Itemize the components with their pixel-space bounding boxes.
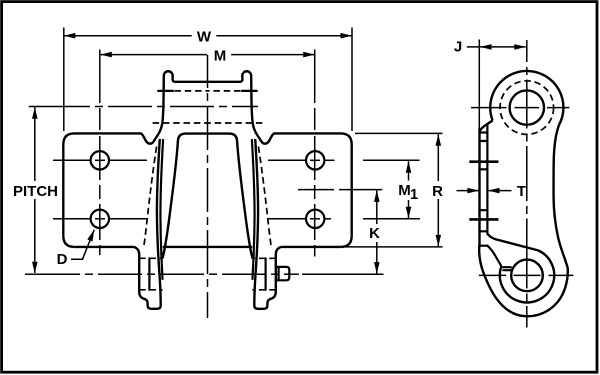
- upper pin hole: [510, 90, 544, 124]
- dimension W: [63, 28, 65, 132]
- left vertical edge / plate strip left: [478, 129, 480, 248]
- dimension K: [376, 190, 378, 224]
- weld lines near lower hole: [503, 266, 511, 268]
- svg-text:K: K: [369, 225, 380, 242]
- lower pitch centerline: [25, 273, 299, 275]
- top arc: [490, 71, 563, 125]
- side view vertical centerline: [526, 40, 528, 328]
- lower barrel arc: [500, 250, 554, 302]
- front view right half (mirror): [208, 71, 352, 309]
- svg-text:R: R: [432, 183, 443, 200]
- left hole column centerline vertical: [99, 50, 101, 256]
- vertical axis centerline of front view: [207, 55, 209, 318]
- plate strip right edge: [486, 125, 488, 234]
- wide tick marks: [469, 160, 498, 163]
- extension plate bottom for R: [341, 246, 443, 248]
- left transition to vertical: [480, 121, 493, 132]
- sidebar bottom diagonal edge: [487, 234, 538, 251]
- dimension R: [437, 134, 439, 181]
- svg-text:D: D: [57, 251, 68, 268]
- lower pin hole: [511, 260, 543, 292]
- upper hidden circle: [500, 81, 554, 135]
- upper pitch centerline: [29, 106, 258, 108]
- dimension J: [478, 40, 480, 131]
- extension plate top for R: [355, 132, 443, 134]
- dimension T: [457, 190, 479, 192]
- extension line for K bottom: [302, 273, 384, 275]
- svg-text:PITCH: PITCH: [13, 183, 58, 200]
- extension lines rows for M1: [363, 159, 420, 161]
- svg-text:W: W: [197, 29, 212, 46]
- weld fillet curve: [487, 246, 501, 266]
- mid datum dashes for K: [298, 189, 382, 191]
- svg-text:T: T: [517, 183, 526, 200]
- dimension M1: [408, 161, 410, 180]
- side view lower horizontal centerline: [479, 274, 574, 276]
- front view left half: [63, 71, 207, 309]
- dimension PITCH: [34, 107, 36, 181]
- weld nub on right leg: [276, 267, 289, 280]
- svg-text:M: M: [214, 47, 227, 64]
- hole crosshairs horizontals row1 left: [53, 160, 335, 219]
- dimension M: [100, 54, 207, 56]
- right hole column centerline vertical: [314, 50, 316, 257]
- strip dividers: [479, 131, 487, 133]
- outline main path: [479, 125, 568, 316]
- svg-text:J: J: [454, 39, 462, 56]
- svg-text:1: 1: [410, 186, 418, 203]
- side view upper horizontal centerline: [471, 107, 569, 109]
